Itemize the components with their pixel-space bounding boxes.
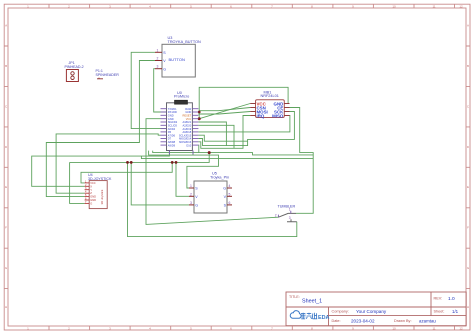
left pins bbox=[189, 188, 194, 205]
svg-text:B: B bbox=[467, 64, 469, 68]
svg-text:A: A bbox=[5, 24, 7, 28]
svg-text:X: X bbox=[90, 184, 92, 188]
svg-text:3D Joystick: 3D Joystick bbox=[100, 189, 104, 204]
svg-text:Sheet:: Sheet: bbox=[434, 310, 445, 314]
svg-text:Sheet_1: Sheet_1 bbox=[302, 299, 322, 305]
U5 Troyka_Pin bbox=[189, 172, 232, 213]
svg-text:4: 4 bbox=[229, 184, 231, 188]
svg-text:3: 3 bbox=[289, 216, 291, 220]
svg-text:Date:: Date: bbox=[332, 319, 341, 323]
svg-text:B: B bbox=[5, 64, 7, 68]
svg-text:G: G bbox=[90, 201, 92, 205]
left pin stubs bbox=[250, 104, 255, 116]
svg-text:F: F bbox=[467, 226, 469, 230]
MB1 NRF24L01 bbox=[250, 90, 289, 118]
bottom contact bbox=[287, 219, 297, 222]
wire U0 pin9r join SCK line bbox=[198, 135, 247, 141]
wire bus to tumbler bottom contact bbox=[128, 162, 297, 236]
svg-text:MISO: MISO bbox=[272, 113, 284, 118]
svg-text:2: 2 bbox=[275, 213, 277, 217]
svg-text:azamtau: azamtau bbox=[419, 319, 436, 324]
pin 2 V bbox=[155, 60, 162, 62]
svg-text:NRF24L01: NRF24L01 bbox=[261, 94, 279, 98]
wire NRF SCK to U0 pin5 bbox=[198, 112, 294, 146]
svg-text:3D-JOYSTICK: 3D-JOYSTICK bbox=[88, 177, 112, 181]
connector JP1 PINHEAD-2 bbox=[65, 61, 84, 81]
wire U0 pin9 to joystick pin4 bbox=[56, 134, 160, 193]
svg-text:GND: GND bbox=[90, 195, 96, 199]
wire button G to U0 pin2 bbox=[154, 69, 167, 112]
wire U0 bottom-left pin to joystick pin2 bbox=[32, 151, 170, 187]
svg-text:A9/D9: A9/D9 bbox=[168, 143, 176, 147]
wire NRF CSN to U0 bbox=[199, 108, 250, 111]
wire bus horizontal bbox=[70, 153, 210, 163]
svg-text:TUMBLER: TUMBLER bbox=[278, 205, 296, 209]
wire NRF MOSI to U0 pin3 bbox=[198, 112, 250, 115]
junction dot bus/joystick-p1 net bbox=[171, 161, 174, 164]
wire NRF IRQ to U0 pin11 bbox=[198, 116, 250, 149]
wire U0 pin6 join IRQ line bbox=[198, 125, 234, 148]
svg-text:Y: Y bbox=[90, 188, 92, 192]
svg-text:IRQ: IRQ bbox=[257, 113, 265, 118]
svg-text:E: E bbox=[467, 185, 469, 189]
svg-text:1: 1 bbox=[157, 48, 159, 52]
svg-text:Company:: Company: bbox=[332, 310, 349, 314]
svg-text:BUTTON: BUTTON bbox=[169, 57, 185, 62]
wire bus left end to joystick pin7 bbox=[70, 162, 85, 203]
pin 3 G bbox=[155, 68, 162, 70]
junction dot staircase net bbox=[208, 151, 211, 154]
svg-text:G: G bbox=[223, 187, 226, 191]
connector P1:1 SPINHEADER bbox=[96, 69, 120, 79]
junction dot bus/troyka-V net bbox=[175, 161, 178, 164]
wire U0 pin12 staircase to right bbox=[153, 145, 314, 155]
svg-text:EDA: EDA bbox=[318, 315, 329, 321]
top contact tick bbox=[290, 211, 292, 214]
svg-text:1: 1 bbox=[190, 184, 192, 188]
svg-text:2: 2 bbox=[157, 57, 159, 61]
wire U0 pin4 to tumbler common (diagonal) bbox=[146, 119, 278, 225]
TUMBLER switch bbox=[275, 205, 297, 222]
wire NRF MISO to U0 pin8 bbox=[198, 116, 290, 132]
lever bbox=[278, 213, 296, 217]
wire NRF CE to tumbler top bbox=[290, 108, 314, 214]
wire bus to troyka pin G bbox=[131, 162, 189, 205]
wire button V to joystick pin5 bbox=[46, 61, 155, 197]
svg-text:VCC: VCC bbox=[90, 181, 96, 185]
U0 ProMicro bbox=[167, 91, 193, 151]
svg-text:1: 1 bbox=[289, 208, 291, 212]
svg-text:5: 5 bbox=[229, 192, 231, 196]
title block bbox=[286, 292, 466, 326]
svg-text:SPINHEADER: SPINHEADER bbox=[96, 73, 120, 77]
svg-text:1/1: 1/1 bbox=[452, 309, 459, 314]
U0 left pin names bbox=[168, 107, 178, 147]
svg-text:TITLE:: TITLE: bbox=[289, 295, 300, 299]
svg-text:12: 12 bbox=[459, 5, 463, 9]
wire top GND net bbox=[199, 87, 288, 118]
svg-text:Troyka_Pin: Troyka_Pin bbox=[210, 176, 229, 180]
svg-text:REV:: REV: bbox=[434, 297, 443, 301]
wire button S to U0 pin7 bbox=[131, 52, 166, 128]
U3 TROYKA_BUTTON bbox=[155, 36, 201, 77]
junction dot bus/tumbler-bottom net bbox=[126, 161, 129, 164]
wire U0 pin10 join SCK line bbox=[198, 139, 226, 146]
common pin tick bbox=[277, 215, 279, 218]
svg-text:D10: D10 bbox=[186, 143, 191, 147]
svg-text:Your Company: Your Company bbox=[356, 309, 387, 314]
JLC EDA logo bbox=[290, 311, 329, 322]
svg-text:3: 3 bbox=[190, 201, 192, 205]
svg-text:11: 11 bbox=[432, 326, 435, 330]
svg-text:E: E bbox=[5, 185, 7, 189]
svg-text:1.0: 1.0 bbox=[448, 296, 455, 302]
right pins bbox=[227, 188, 232, 205]
svg-text:GND: GND bbox=[168, 114, 174, 118]
svg-text:A: A bbox=[467, 24, 469, 28]
svg-text:TROYKA_BUTTON: TROYKA_BUTTON bbox=[168, 40, 202, 44]
svg-text:ProMicro: ProMicro bbox=[174, 95, 189, 99]
svg-text:6: 6 bbox=[229, 201, 231, 205]
U0 right pins bbox=[192, 109, 198, 145]
svg-text:H: H bbox=[5, 305, 7, 309]
U0 left pins bbox=[161, 109, 167, 145]
svg-text:GND: GND bbox=[90, 198, 96, 202]
wire VCC diagonal to NRF bbox=[199, 104, 250, 119]
wire bus to troyka pin V bbox=[176, 162, 189, 196]
svg-text:G: G bbox=[163, 67, 166, 71]
pin 1 S bbox=[155, 51, 162, 53]
svg-text:Drawn By:: Drawn By: bbox=[394, 319, 412, 323]
svg-text:12: 12 bbox=[459, 326, 463, 330]
junction dot U0 GND pin bbox=[198, 111, 201, 114]
svg-text:2: 2 bbox=[190, 192, 192, 196]
svg-text:G: G bbox=[195, 204, 198, 208]
wire bus to joystick pin1 bbox=[81, 162, 172, 183]
svg-text:H: H bbox=[467, 305, 469, 309]
svg-text:RESET: RESET bbox=[183, 114, 192, 118]
svg-text:F: F bbox=[5, 226, 7, 230]
junction dot bus/troyka-G net bbox=[130, 161, 133, 164]
junction dot U0 VCC pin bbox=[198, 117, 201, 120]
svg-text:11: 11 bbox=[432, 5, 435, 9]
U0 bottom pins bbox=[169, 151, 193, 155]
U4 3D-JOYSTICK bbox=[85, 173, 112, 209]
svg-text:3: 3 bbox=[157, 65, 159, 69]
svg-text:PINHEAD-2: PINHEAD-2 bbox=[65, 65, 84, 69]
right pin stubs bbox=[284, 104, 289, 116]
svg-text:2023-04-02: 2023-04-02 bbox=[351, 319, 375, 324]
U0 right pin names bbox=[179, 107, 192, 147]
svg-text:10: 10 bbox=[392, 326, 396, 330]
svg-text:10: 10 bbox=[392, 5, 396, 9]
wire U0 bottom-right pin to troyka pin S bbox=[149, 151, 219, 189]
wire long net to tumbler loop bbox=[141, 156, 313, 159]
